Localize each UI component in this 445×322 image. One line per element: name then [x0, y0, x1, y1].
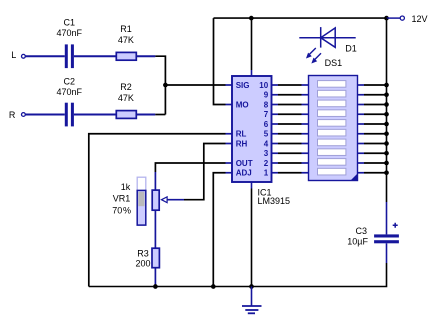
wire DS1 pin row7 to rail — [358, 141, 389, 146]
svg-text:C2: C2 — [64, 77, 76, 87]
wire RL to left rail — [89, 134, 226, 287]
node R3-rail — [153, 284, 158, 289]
node ADJ-rail — [211, 284, 216, 289]
node 12V terminal — [387, 17, 401, 19]
svg-text:MO: MO — [236, 100, 249, 109]
wire DS1 pin row6 to rail — [358, 131, 389, 136]
wire R3 to ground rail — [154, 268, 156, 287]
wire MO drop from rail — [214, 18, 226, 104]
LED D1 symbol — [299, 27, 355, 63]
wire SIG junction to IC pin SIG — [165, 84, 225, 86]
svg-text:47K: 47K — [118, 93, 134, 103]
svg-text:R: R — [9, 110, 16, 120]
svg-text:70 %: 70 % — [112, 205, 131, 215]
svg-text:470nF: 470nF — [57, 28, 83, 38]
node rail-V+ — [249, 16, 254, 21]
wire C3 top pin — [386, 202, 388, 234]
svg-text:47K: 47K — [118, 35, 134, 45]
node rail-right — [384, 16, 389, 21]
wire IC pin8 to DS1 — [272, 104, 309, 106]
svg-text:DS1: DS1 — [325, 58, 343, 68]
svg-text:5: 5 — [264, 130, 269, 139]
wire IC pin4 to DS1 — [272, 143, 309, 145]
wire IC pin6 to DS1 — [272, 123, 309, 125]
node SIG junction — [163, 83, 168, 88]
svg-text:2: 2 — [264, 159, 269, 168]
wire IC pin2 to DS1 — [272, 162, 309, 164]
capacitor C2 — [57, 77, 83, 127]
wire right rail lower + bottom rail — [89, 263, 387, 287]
wire IC pin9 to DS1 — [272, 94, 309, 96]
wire DS1 pin row1 to rail — [358, 83, 389, 88]
capacitor C1 — [57, 17, 83, 68]
svg-text:9: 9 — [264, 91, 269, 100]
ground — [242, 287, 262, 314]
wire DS1 pin row10 to rail — [358, 170, 389, 175]
svg-text:ADJ: ADJ — [236, 169, 252, 178]
wire IC pin3 to DS1 — [272, 152, 309, 154]
wire IC pin10 to DS1 — [272, 84, 309, 86]
svg-text:D1: D1 — [345, 43, 357, 53]
svg-text:10: 10 — [259, 81, 268, 90]
svg-text:12V: 12V — [412, 14, 428, 24]
svg-text:1k: 1k — [121, 182, 131, 192]
wire ADJ to ground rail — [213, 173, 225, 287]
wire IC pin1 to DS1 — [272, 172, 309, 174]
wire C2 to R2 — [74, 114, 116, 116]
wire IC pin7 to DS1 — [272, 113, 309, 115]
svg-text:3: 3 — [264, 149, 269, 158]
resistor R1 — [116, 24, 136, 60]
svg-text:C1: C1 — [64, 17, 76, 27]
bargraph DS1 body — [309, 76, 358, 181]
wire IC pin5 to DS1 — [272, 133, 309, 135]
wire DS1 pin row3 to rail — [358, 102, 389, 107]
svg-text:1: 1 — [264, 169, 269, 178]
wire OUT drop through VR1 — [154, 210, 156, 248]
wire R1 to junction — [137, 55, 156, 57]
wire OUT to VR1 top — [155, 163, 225, 172]
wire DS1 pin row2 to rail — [358, 92, 389, 97]
svg-text:SIG: SIG — [236, 81, 250, 90]
IC IC1 LM3915 — [232, 76, 272, 182]
svg-text:RL: RL — [236, 130, 247, 139]
wire R2 to junction — [137, 114, 156, 116]
svg-text:C3: C3 — [355, 226, 367, 236]
wire L to C1 — [26, 55, 65, 57]
wire DS1 pin row5 to rail — [358, 122, 389, 127]
wire R to C2 — [26, 114, 65, 116]
svg-text:7: 7 — [264, 110, 269, 119]
wire C3 bottom pin — [386, 243, 388, 263]
wire DS1 pin row9 to rail — [358, 161, 389, 166]
svg-text:R3: R3 — [137, 249, 149, 259]
wire RH to VR1 wiper — [184, 144, 226, 200]
node ground junction — [249, 284, 254, 289]
svg-text:RH: RH — [236, 139, 248, 148]
svg-text:OUT: OUT — [236, 159, 253, 168]
svg-text:200: 200 — [135, 259, 150, 269]
wire C1 to R1 — [74, 55, 116, 57]
svg-text:R2: R2 — [120, 82, 132, 92]
wire DS1 pin row4 to rail — [358, 112, 389, 117]
svg-text:470nF: 470nF — [57, 87, 83, 97]
wire right rail upper — [386, 18, 388, 202]
svg-text:6: 6 — [264, 120, 269, 129]
potentiometer VR1 — [112, 177, 167, 225]
svg-text:8: 8 — [264, 100, 269, 109]
svg-text:LM3915: LM3915 — [258, 196, 291, 206]
wire DS1 pin row8 to rail — [358, 151, 389, 156]
wire IC V+ pin — [251, 18, 253, 70]
resistor R3 — [135, 248, 159, 268]
svg-text:10µF: 10µF — [347, 237, 368, 247]
wire IC V- pin to ground — [251, 182, 253, 189]
svg-text:R1: R1 — [120, 24, 132, 34]
resistor R2 — [116, 82, 136, 118]
svg-text:4: 4 — [264, 139, 269, 148]
wire 12V top rail — [214, 17, 387, 19]
svg-text:L: L — [11, 50, 16, 60]
capacitor C3 — [347, 223, 399, 247]
svg-text:VR1: VR1 — [113, 193, 131, 203]
